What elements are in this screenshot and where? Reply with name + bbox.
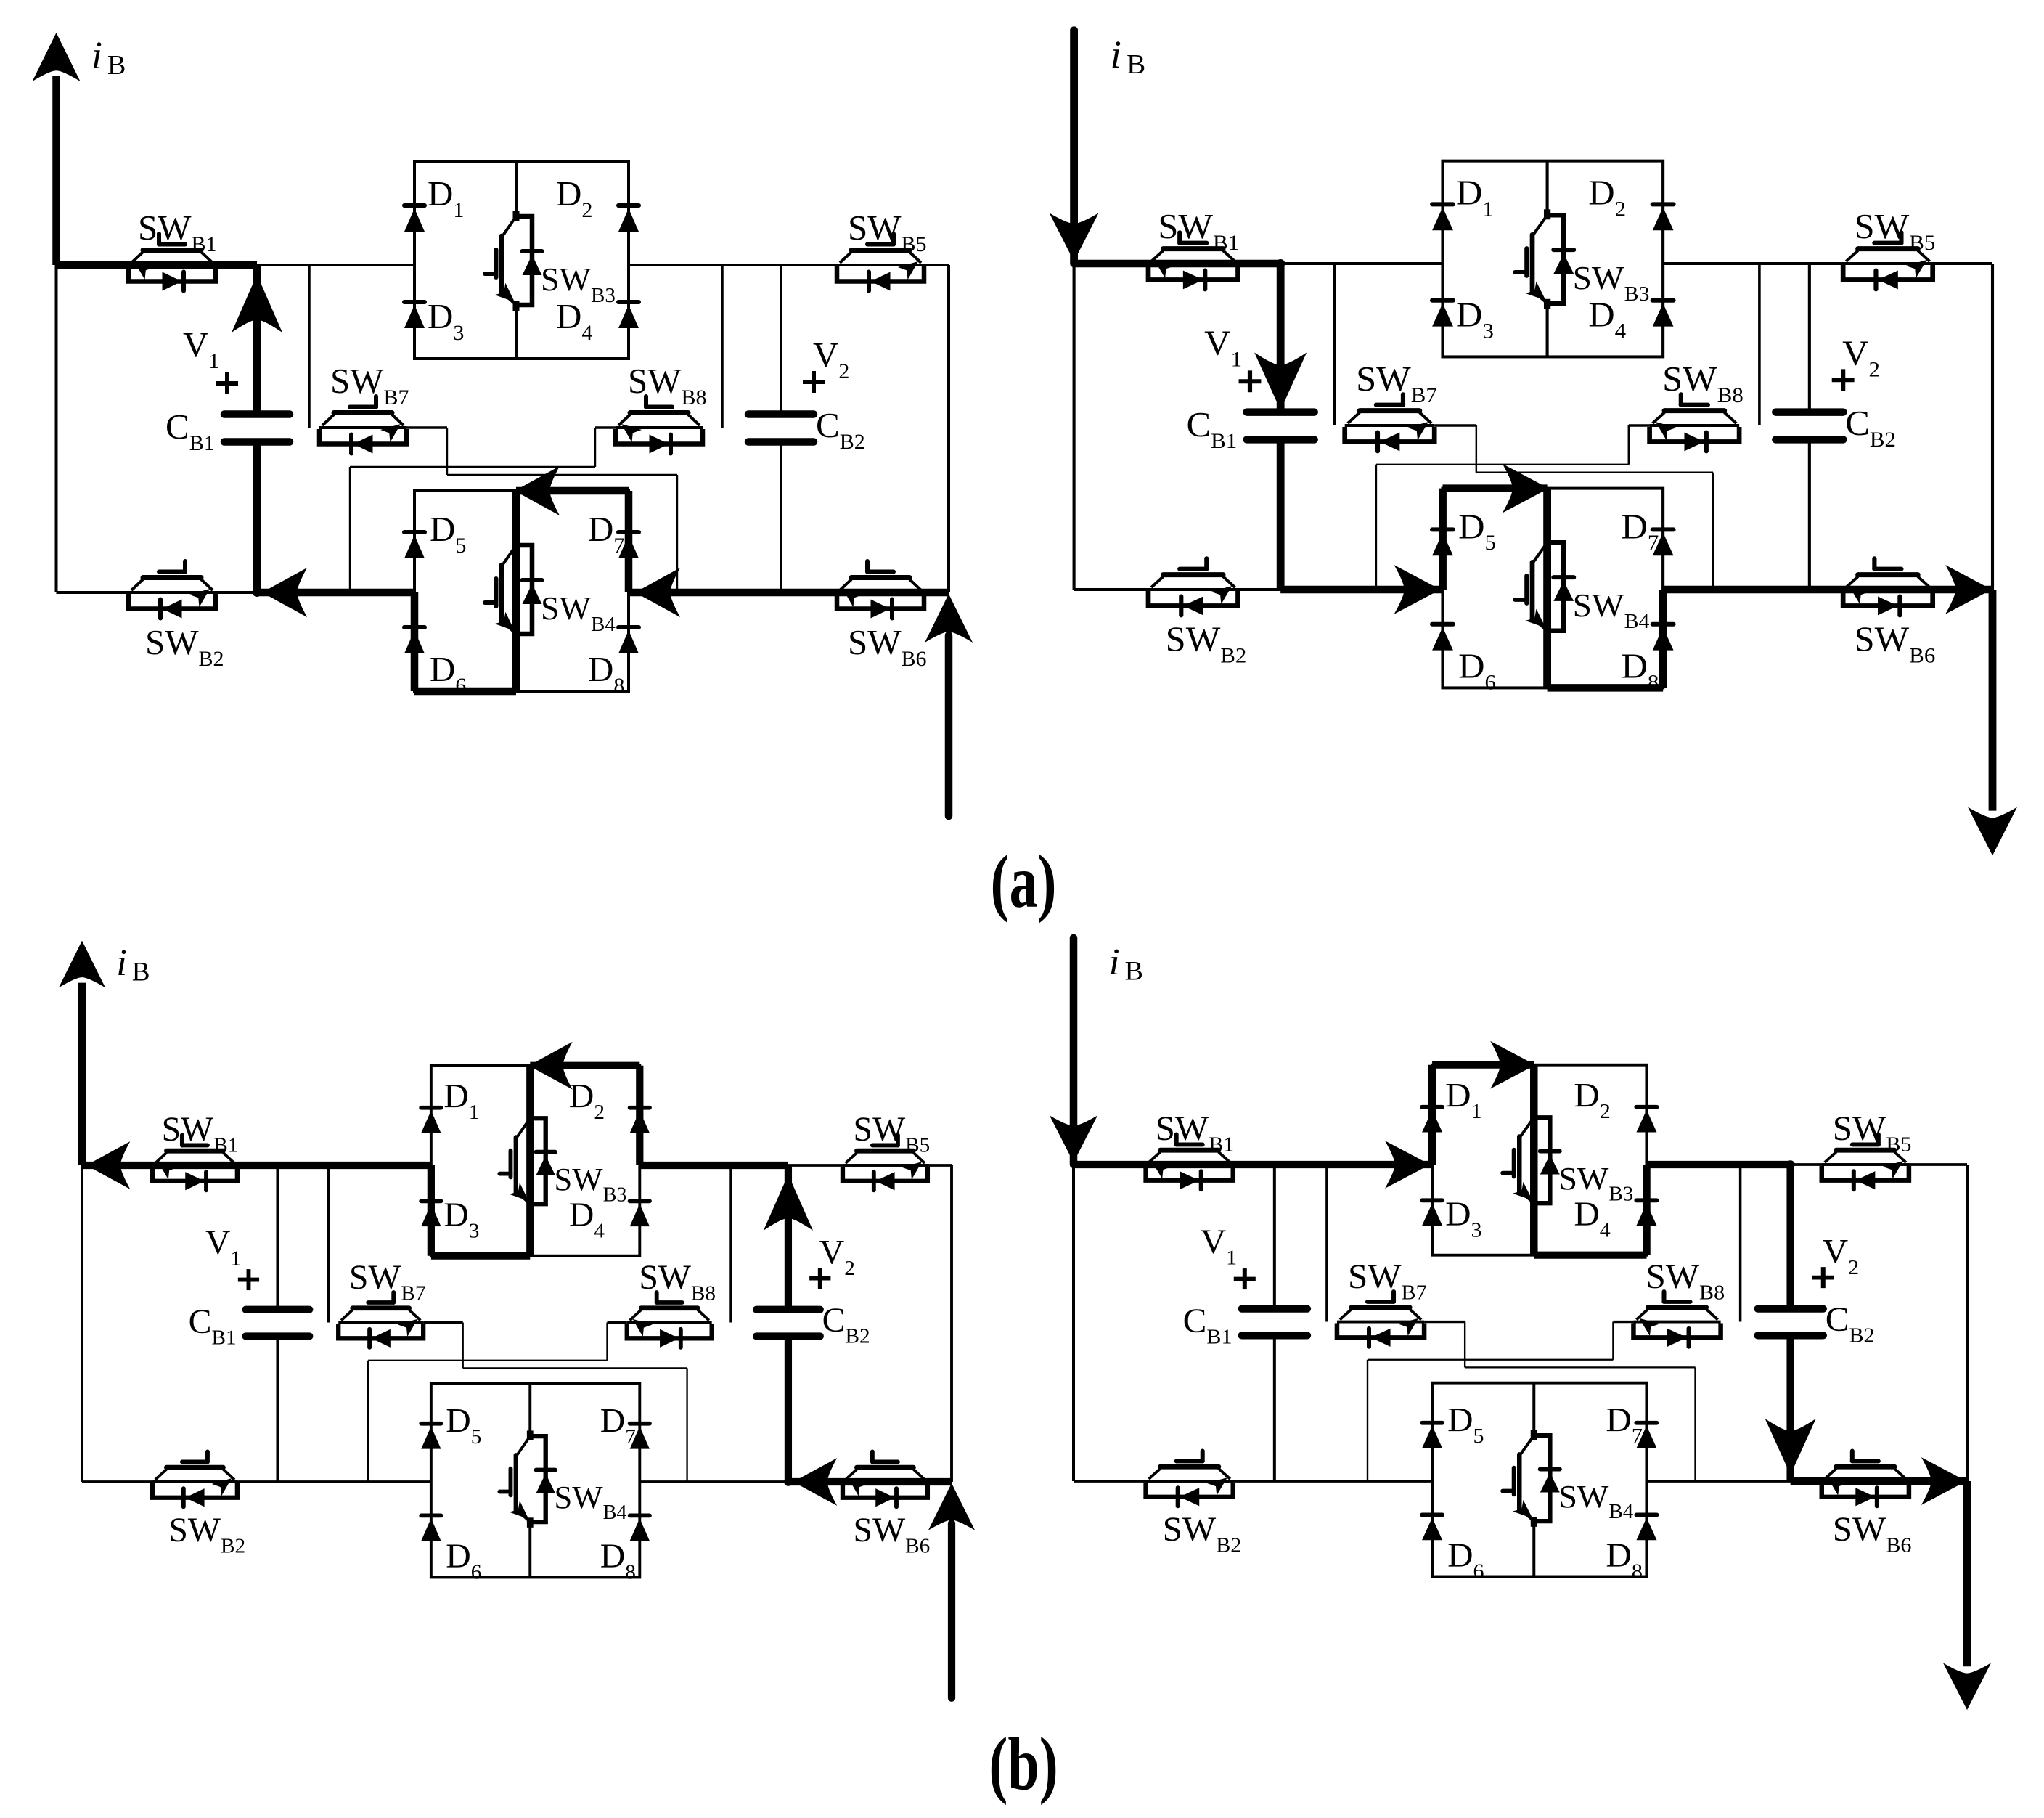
wire bold upper box right edge (D4 branch)	[1643, 1165, 1651, 1255]
op-amp — none; transistor SW_B3 (IGBT with antiparallel diode)	[485, 211, 542, 311]
wire bold C_B1 branch upper	[1277, 264, 1285, 412]
wire SW_B3 center line lower	[528, 1204, 531, 1256]
current arrow i_B (up, out of circuit)	[33, 33, 81, 81]
polarity mark + for V1	[1234, 1268, 1256, 1289]
wire SW_B4 center line lower	[528, 1522, 531, 1577]
op-amp — none; transistor SW_B3 (IGBT with antiparallel diode)	[1503, 1112, 1560, 1208]
wire SW_B3 center line lower	[1546, 303, 1549, 357]
wire bold top rail C_B2 to upper box	[639, 1162, 788, 1170]
diode D2	[618, 205, 639, 232]
diode D7	[1636, 1423, 1656, 1448]
transistor SW_B2 (IGBT switch with antiparallel diode)	[1146, 1451, 1233, 1506]
current arrow down into C_B1	[1254, 352, 1307, 410]
current arrow right into SW_B4 top	[1503, 464, 1549, 513]
transistor SW_B5 (IGBT switch with antiparallel diode)	[1822, 1134, 1909, 1189]
current arrow i_B (down, into circuit)	[1050, 213, 1099, 261]
wire SW_B7 right cross-link	[1434, 424, 1476, 427]
wire bold lower box bottom edge left half	[414, 688, 516, 696]
transistor SW_B2 (IGBT switch with antiparallel diode)	[128, 561, 216, 619]
wire lower bridge box outline	[1443, 489, 1664, 688]
transistor SW_B4 (IGBT with antiparallel diode)	[499, 1430, 555, 1527]
transistor SW_B8 (IGBT switch with antiparallel diode)	[1633, 1292, 1720, 1347]
wire bold top rail through SW_B1	[56, 261, 257, 269]
transistor SW_B6 (IGBT switch with antiparallel diode)	[1843, 558, 1933, 615]
wire SW_B3 center line upper	[1532, 1065, 1535, 1118]
label (a)	[991, 839, 1057, 923]
wire bold C_B2 branch upper	[1786, 1165, 1794, 1309]
wire SW_B3 center line upper	[515, 162, 518, 216]
wire bottom rail left (net C)	[82, 1480, 431, 1483]
wire drop top rail to SW_B8 right	[1758, 264, 1761, 425]
current arrow down out of circuit	[1943, 1663, 1991, 1710]
wire SW_B4 center line upper	[1546, 489, 1549, 543]
current arrow up into bottom-right corner	[925, 594, 973, 643]
wire outer right vertical	[950, 1165, 953, 1482]
wire top rail left (net A)	[57, 264, 415, 266]
wire bold bottom rail (C_B1 junction to box)	[1280, 586, 1442, 594]
wire outer left vertical	[55, 265, 58, 592]
current arrow left toward lower box	[635, 568, 680, 617]
diode D3	[1432, 301, 1453, 327]
capacitor C_B1	[246, 1310, 310, 1337]
wire C_B2 branch	[780, 265, 782, 415]
wire bold top rail through SW_B1	[82, 1162, 431, 1170]
current arrow up into top-rail junction	[232, 274, 282, 333]
transistor SW_B8 (IGBT switch with antiparallel diode)	[1650, 394, 1740, 451]
transistor SW_B8 (IGBT switch with antiparallel diode)	[616, 396, 703, 454]
current arrow right into upper box left edge	[1385, 1141, 1430, 1189]
wire bold SW_B4 center line	[1543, 489, 1551, 688]
wire C_B2 branch	[1789, 1165, 1792, 1309]
wire drop top rail to SW_B7 left	[1333, 264, 1336, 425]
current arrow right into lower box	[1394, 565, 1441, 614]
diode D6	[421, 1515, 441, 1541]
transistor SW_B2 (IGBT switch with antiparallel diode)	[1148, 558, 1238, 615]
capacitor C_B2	[756, 1310, 820, 1337]
polarity mark + for V2	[1812, 1267, 1834, 1288]
wire top rail left (net A)	[1074, 1163, 1432, 1166]
diode D8	[630, 1515, 650, 1541]
svg-text:(a): (a)	[991, 839, 1057, 923]
wire bottom rail left (net C)	[1074, 588, 1443, 591]
wire bottom rail left (net C)	[57, 591, 415, 594]
polarity mark + for V1	[238, 1269, 259, 1290]
wire bold upper box right edge (D2 branch)	[636, 1066, 644, 1165]
transistor SW_B6 (IGBT switch with antiparallel diode)	[843, 1451, 928, 1507]
wire SW_B8 left cross-link	[1629, 424, 1650, 427]
panel a-right circuit	[1050, 30, 2017, 855]
wire bold top rail upper box to C_B2	[1646, 1161, 1790, 1169]
diode D8	[618, 627, 639, 653]
diode D7	[618, 532, 639, 558]
transistor SW_B5 (IGBT switch with antiparallel diode)	[843, 1135, 928, 1190]
diode D7	[630, 1424, 650, 1449]
current arrow i_B (up, out of circuit)	[59, 941, 105, 988]
wire bold lower box bottom edge right half	[1548, 684, 1664, 692]
polarity mark + for V1	[216, 372, 238, 394]
diode D4	[1636, 1200, 1656, 1226]
capacitor C_B1	[224, 415, 290, 442]
wire top rail right (net B)	[1663, 262, 1992, 265]
current arrow up into top rail junction	[764, 1175, 813, 1231]
wire bold lower box top edge right half	[516, 487, 629, 495]
diode D7	[1653, 529, 1674, 555]
diode D1	[1422, 1107, 1442, 1133]
current arrow down toward bottom rail	[1765, 1419, 1816, 1475]
wire SW_B3 center line lower	[515, 305, 518, 359]
wire C_B1 branch	[1279, 264, 1282, 412]
wire lower bridge box outline	[414, 491, 629, 691]
wire top rail right (net B)	[1646, 1163, 1967, 1166]
diode D3	[421, 1201, 441, 1226]
capacitor C_B1	[1242, 1309, 1307, 1336]
wire bottom rail right (net D)	[629, 591, 949, 594]
wire bold i_B branch down	[1070, 938, 1078, 1165]
panel b-right circuit	[1050, 938, 1991, 1710]
wire bold bottom rail through SW_B6	[788, 1478, 952, 1486]
wire SW_B4 center line upper	[528, 1384, 531, 1437]
wire bold i_B branch up	[78, 983, 86, 1165]
wire bold C_B2 branch lower	[785, 1336, 793, 1482]
diode D4	[618, 302, 639, 328]
polarity mark + for V2	[1832, 369, 1855, 391]
wire C_B1 branch	[1273, 1165, 1276, 1309]
wire bold upper box left edge (D1 branch)	[1428, 1065, 1436, 1165]
wire bottom rail right (net D)	[639, 1480, 952, 1483]
transistor SW_B5 (IGBT switch with antiparallel diode)	[1843, 232, 1933, 289]
wire bold C_B1 branch upper	[253, 265, 261, 415]
wire bold bottom rail (box to C_B1 junction)	[257, 589, 414, 597]
diode D6	[1422, 1515, 1442, 1540]
diode D4	[630, 1201, 650, 1226]
polarity mark + for V2	[809, 1268, 830, 1289]
diode D1	[1432, 204, 1453, 230]
wire SW_B4 center line upper	[1532, 1383, 1535, 1436]
wire drop top rail to SW_B8 right	[1739, 1165, 1742, 1322]
wire bold bottom rail through SW_B6	[1791, 1477, 1967, 1485]
wire bold C_B2 branch upper	[785, 1165, 793, 1310]
capacitor C_B2	[1758, 1309, 1823, 1336]
wire SW_B4 center line lower	[515, 634, 518, 691]
current arrow left into SW_B4 top	[515, 466, 560, 515]
wire bold external load branch	[1963, 1481, 1971, 1666]
wire SW_B4 center line upper	[515, 491, 518, 545]
wire bold external source branch	[948, 1523, 956, 1698]
op-amp — none; transistor SW_B3 (IGBT with antiparallel diode)	[499, 1112, 555, 1209]
wire bold upper box top edge right half	[530, 1061, 639, 1069]
wire outer right vertical	[947, 265, 950, 592]
diode D2	[1636, 1107, 1656, 1133]
transistor SW_B7 (IGBT switch with antiparallel diode)	[319, 396, 406, 454]
diode D3	[404, 302, 425, 328]
current arrow up into bottom-right corner	[928, 1483, 975, 1530]
capacitor C_B2	[1776, 412, 1844, 440]
wire top rail left (net A)	[82, 1164, 431, 1167]
wire SW_B4 center line lower	[1532, 1521, 1535, 1576]
wire bold upper box left edge (D3 branch)	[428, 1165, 436, 1256]
wire bold current path: i_B branch up	[52, 76, 60, 265]
diode D2	[630, 1108, 650, 1133]
wire outer left vertical	[81, 1165, 83, 1482]
transistor SW_B1 (IGBT switch with antiparallel diode)	[128, 234, 216, 291]
wire bold upper box bottom edge left half	[431, 1252, 530, 1260]
transistor SW_B7 (IGBT switch with antiparallel diode)	[1345, 394, 1435, 451]
wire bold lower box right edge (D7 branch)	[625, 491, 633, 592]
wire C_B2 branch	[787, 1165, 790, 1310]
wire bottom rail left (net C)	[1074, 1480, 1432, 1483]
wire lower bridge box outline	[1432, 1383, 1646, 1577]
wire SW_B4 center line lower	[1546, 631, 1549, 688]
wire upper bridge box outline	[1443, 161, 1664, 357]
diode D5	[1432, 529, 1453, 555]
wire bold C_B2 branch lower	[1786, 1335, 1794, 1481]
wire SW_B7 right cross-link	[1424, 1321, 1465, 1324]
wire outer right vertical	[1966, 1165, 1969, 1481]
svg-text:(b): (b)	[989, 1721, 1058, 1805]
wire SW_B3 center line upper	[528, 1066, 531, 1119]
transistor SW_B6 (IGBT switch with antiparallel diode)	[1822, 1451, 1909, 1506]
diode D6	[1432, 624, 1453, 651]
wire C_B1 branch	[276, 1165, 279, 1310]
node junction C_B1 / bottom rail	[253, 588, 261, 597]
current arrow left into C_B1 junction	[262, 568, 307, 617]
wire bold top rail through SW_B1	[1074, 260, 1280, 268]
current arrow left into SW_B3 top	[528, 1042, 572, 1090]
wire top rail right (net B)	[629, 264, 949, 266]
wire top rail left (net A)	[1074, 262, 1443, 265]
wire top rail right (net B)	[639, 1164, 952, 1167]
wire drop top rail to SW_B7 left	[327, 1165, 330, 1323]
wire bold upper box top edge left half	[1432, 1061, 1534, 1069]
transistor SW_B1 (IGBT switch with antiparallel diode)	[1148, 232, 1238, 289]
diode D5	[1422, 1423, 1442, 1448]
wire C_B1 branch	[255, 265, 258, 415]
node junction C_B1 / top rail	[1276, 259, 1285, 268]
wire bold upper box bottom edge right half	[1534, 1251, 1646, 1259]
transistor SW_B4 (IGBT with antiparallel diode)	[485, 539, 542, 640]
wire bottom rail right (net D)	[1646, 1480, 1967, 1483]
current arrow left toward top-left corner	[86, 1141, 130, 1189]
wire upper bridge box outline	[431, 1066, 639, 1256]
wire C_B2 branch	[1808, 264, 1811, 412]
node junction C_B2 / bottom rail	[784, 1477, 793, 1486]
wire SW_B3 center line upper	[1546, 161, 1549, 216]
transistor SW_B4 (IGBT with antiparallel diode)	[1515, 537, 1574, 636]
wire bold lower box top edge left half	[1443, 484, 1548, 492]
panel a-left circuit	[33, 33, 973, 816]
diode D5	[421, 1424, 441, 1449]
wire bold C_B1 branch lower	[1277, 439, 1285, 590]
wire SW_B8 left cross-link	[595, 426, 616, 429]
wire outer left vertical	[1072, 1165, 1075, 1481]
polarity mark + for V1	[1239, 370, 1262, 392]
wire bold bottom rail through SW_B6	[1663, 586, 1992, 594]
current arrow right into SW_B3 top	[1490, 1041, 1535, 1089]
label (b)	[989, 1721, 1058, 1805]
wire bold bottom rail through SW_B6	[629, 589, 949, 597]
wire bold top rail through SW_B1	[1074, 1161, 1433, 1169]
wire upper bridge box outline	[414, 162, 629, 359]
diode D4	[1653, 301, 1674, 327]
diode D8	[1653, 624, 1674, 651]
node junction C_B2 / top rail	[1786, 1160, 1795, 1169]
wire bold external load branch	[1989, 590, 1997, 811]
wire bold SW_B4 center line	[512, 491, 520, 691]
transistor SW_B2 (IGBT switch with antiparallel diode)	[152, 1451, 237, 1507]
current arrow left into C_B2 junction	[793, 1458, 837, 1506]
transistor SW_B7 (IGBT switch with antiparallel diode)	[338, 1292, 423, 1348]
wire SW_B8 left cross-link	[607, 1321, 626, 1324]
wire bold lower box left edge (D6 branch)	[411, 592, 419, 691]
current arrow i_B (down, into circuit)	[1050, 1115, 1097, 1162]
diode D2	[1653, 204, 1674, 230]
transistor SW_B1 (IGBT switch with antiparallel diode)	[1146, 1134, 1233, 1189]
capacitor C_B1	[1247, 412, 1315, 440]
wire drop top rail to SW_B7 left	[308, 265, 311, 428]
transistor SW_B6 (IGBT switch with antiparallel diode)	[837, 561, 924, 619]
wire outer right vertical	[1991, 264, 1994, 590]
current arrow right into bottom-right corner	[1945, 565, 1992, 614]
transistor SW_B8 (IGBT switch with antiparallel diode)	[627, 1292, 712, 1348]
wire drop top rail to SW_B8 right	[721, 265, 724, 428]
wire drop top rail to SW_B8 right	[729, 1165, 732, 1323]
diode D1	[404, 205, 425, 232]
wire bottom rail right (net D)	[1663, 588, 1992, 591]
wire drop top rail to SW_B7 left	[1325, 1165, 1328, 1322]
wire bold external source branch	[945, 635, 953, 816]
panel b-left circuit	[59, 941, 975, 1698]
capacitor C_B2	[748, 415, 814, 442]
diode D1	[421, 1108, 441, 1133]
op-amp — none; transistor SW_B3 (IGBT with antiparallel diode)	[1515, 209, 1574, 309]
wire upper bridge box outline	[1432, 1065, 1646, 1255]
wire lower bridge box outline	[431, 1384, 639, 1578]
diode D6	[404, 627, 425, 653]
transistor SW_B1 (IGBT switch with antiparallel diode)	[152, 1135, 237, 1190]
wire bold lower box right edge (D8 branch)	[1659, 590, 1667, 688]
wire bold SW_B3 center line	[526, 1066, 534, 1256]
current arrow down out of circuit	[1968, 807, 2017, 856]
diode D3	[1422, 1200, 1442, 1226]
diode D8	[1636, 1515, 1656, 1540]
transistor SW_B7 (IGBT switch with antiparallel diode)	[1337, 1292, 1424, 1347]
transistor SW_B5 (IGBT switch with antiparallel diode)	[837, 234, 924, 291]
wire bold C_B1 branch lower	[253, 442, 261, 593]
transistor SW_B4 (IGBT with antiparallel diode)	[1503, 1430, 1560, 1526]
wire bold current path: i_B branch down	[1070, 30, 1078, 264]
wire SW_B8 left cross-link	[1613, 1321, 1633, 1324]
wire outer left vertical	[1073, 264, 1076, 590]
wire SW_B3 center line lower	[1532, 1203, 1535, 1255]
wire bold lower box left edge (D5 branch)	[1439, 489, 1447, 590]
wire SW_B7 right cross-link	[406, 426, 447, 429]
wire SW_B7 right cross-link	[423, 1321, 463, 1324]
wire bold SW_B3 center line	[1530, 1065, 1538, 1255]
current arrow right into bottom-right corner	[1921, 1457, 1966, 1505]
diode D5	[404, 532, 425, 558]
polarity mark + for V2	[803, 371, 825, 393]
